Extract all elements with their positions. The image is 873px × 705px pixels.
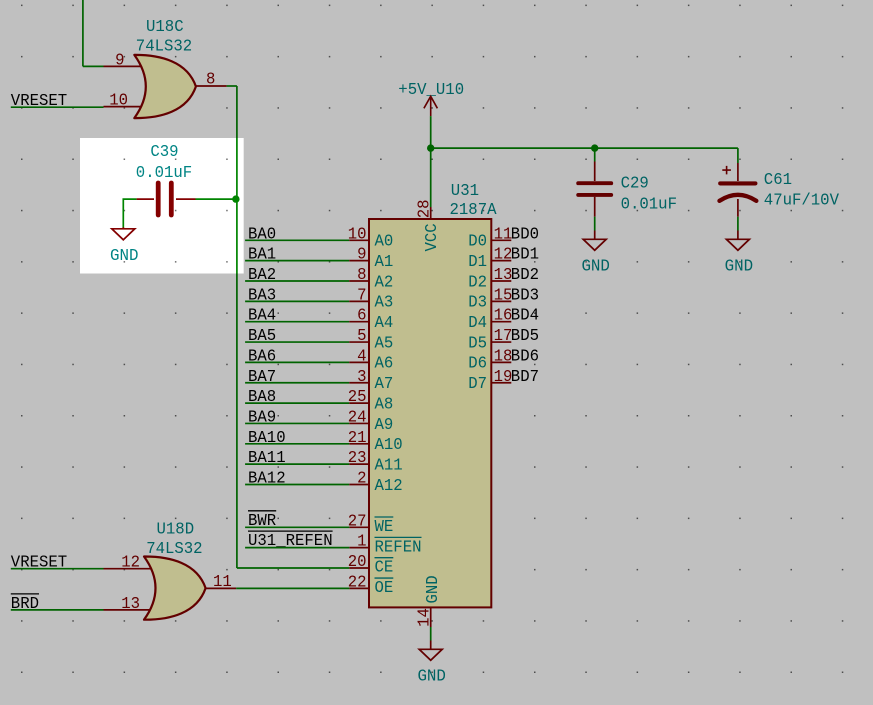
svg-text:10: 10 <box>109 92 128 111</box>
or-gate U18D pin 12 stub <box>104 568 157 570</box>
svg-text:BA2: BA2 <box>248 266 276 285</box>
power +5V arrow symbol <box>424 96 438 108</box>
svg-text:BD7: BD7 <box>511 368 539 387</box>
wire: VRESET to U18D pin 12 <box>11 568 104 570</box>
U31 pin 22 (OE) <box>349 587 369 589</box>
U31 pin 11 (D0) stub and labels <box>491 239 511 241</box>
or-gate U18D pin 13 stub <box>104 609 157 611</box>
svg-text:BA10: BA10 <box>248 429 286 448</box>
svg-text:BD3: BD3 <box>511 286 539 305</box>
svg-text:D7: D7 <box>468 375 487 394</box>
U31 pin 14 (GND) <box>430 607 432 627</box>
wire: C39 left lead corner <box>123 199 136 228</box>
ground below C29 <box>594 231 596 240</box>
wire: GND pin to ground symbol <box>430 627 432 641</box>
svg-text:BRD: BRD <box>11 595 39 614</box>
svg-text:27: 27 <box>348 512 367 531</box>
svg-text:BD5: BD5 <box>511 327 539 346</box>
svg-text:C29: C29 <box>621 174 649 193</box>
svg-text:BA9: BA9 <box>248 408 276 427</box>
svg-text:C39: C39 <box>150 143 178 162</box>
svg-text:D6: D6 <box>468 355 487 374</box>
wire: C61 to ground <box>737 217 739 231</box>
svg-text:D2: D2 <box>468 273 487 292</box>
svg-text:BA12: BA12 <box>248 470 286 489</box>
svg-text:25: 25 <box>348 388 367 407</box>
wire: horizontal into CE pin <box>237 567 349 569</box>
svg-text:A5: A5 <box>375 334 394 353</box>
junction at C29 <box>591 144 598 151</box>
U31 pin 28 (VCC) <box>430 207 432 219</box>
svg-text:BA5: BA5 <box>248 327 276 346</box>
svg-text:BA11: BA11 <box>248 449 286 468</box>
wire: BRD to U18D pin 13 <box>11 609 104 611</box>
svg-text:VRESET: VRESET <box>11 554 67 573</box>
svg-text:GND: GND <box>417 668 446 687</box>
svg-text:11: 11 <box>494 225 513 244</box>
svg-text:A6: A6 <box>375 355 394 374</box>
svg-text:74LS32: 74LS32 <box>146 540 202 559</box>
svg-text:BA7: BA7 <box>248 368 276 387</box>
svg-text:6: 6 <box>357 307 366 326</box>
svg-text:3: 3 <box>357 368 366 387</box>
svg-text:D1: D1 <box>468 253 487 272</box>
svg-text:BA0: BA0 <box>248 225 276 244</box>
svg-text:OE: OE <box>375 579 394 598</box>
svg-text:A11: A11 <box>375 456 403 475</box>
svg-text:12: 12 <box>121 554 140 573</box>
svg-text:28: 28 <box>415 200 434 219</box>
capacitor C61 top plate <box>720 181 755 185</box>
junction C39 to bus <box>232 195 239 202</box>
ground below C39 <box>122 227 124 229</box>
capacitor C39 right pin stub <box>176 198 196 200</box>
svg-text:0.01uF: 0.01uF <box>621 195 677 214</box>
wire: +5V rail to capacitors <box>431 147 738 149</box>
svg-text:4: 4 <box>357 347 366 366</box>
svg-text:15: 15 <box>494 286 513 305</box>
svg-text:BD2: BD2 <box>511 266 539 285</box>
wire: C39 right lead to junction <box>196 198 237 200</box>
svg-text:9: 9 <box>357 246 366 265</box>
svg-text:VRESET: VRESET <box>11 92 67 111</box>
ground below C61 <box>737 231 739 240</box>
svg-text:A0: A0 <box>375 233 394 252</box>
svg-text:16: 16 <box>494 307 513 326</box>
svg-text:BA8: BA8 <box>248 388 276 407</box>
wire: VRESET to U18C pin 10 <box>11 106 104 108</box>
svg-text:0.01uF: 0.01uF <box>136 164 192 183</box>
svg-text:A8: A8 <box>375 395 394 414</box>
svg-text:A4: A4 <box>375 314 394 333</box>
svg-text:D0: D0 <box>468 233 487 252</box>
or-gate U18C body <box>134 55 196 118</box>
svg-text:8: 8 <box>357 266 366 285</box>
svg-text:A1: A1 <box>375 253 394 272</box>
svg-text:47uF/10V: 47uF/10V <box>764 191 839 210</box>
svg-text:CE: CE <box>375 559 394 578</box>
svg-text:A3: A3 <box>375 294 394 313</box>
svg-text:14: 14 <box>415 608 434 627</box>
wire: vertical bus through highlight <box>236 130 238 280</box>
U18C output pin 8 stub <box>196 85 227 87</box>
svg-text:24: 24 <box>348 408 367 427</box>
capacitor C61 bottom pin stub <box>737 199 739 217</box>
svg-text:9: 9 <box>115 51 124 70</box>
svg-text:GND: GND <box>725 258 754 277</box>
junction at +5V rail <box>427 144 434 151</box>
svg-text:2187A: 2187A <box>450 201 498 220</box>
svg-text:BD0: BD0 <box>511 225 539 244</box>
wire: rail down to C29 <box>594 148 596 161</box>
C61 plus sign <box>722 166 731 175</box>
svg-text:13: 13 <box>494 266 513 285</box>
wire: vertical into U18C pin 9 from top edge <box>82 0 84 66</box>
svg-text:U18D: U18D <box>157 521 195 540</box>
svg-text:VCC: VCC <box>423 223 442 251</box>
wire: +5V down to VCC <box>430 116 432 207</box>
wire: horizontal to U18C pin 9 <box>83 65 104 67</box>
svg-text:BD4: BD4 <box>511 307 539 326</box>
U31 pin 13 (D2) stub and labels <box>491 280 511 282</box>
capacitor C39 left pin stub <box>137 198 154 200</box>
U31 pin 19 (D7) stub and labels <box>491 382 511 384</box>
svg-text:1: 1 <box>357 533 366 552</box>
svg-text:22: 22 <box>348 573 367 592</box>
svg-text:U31: U31 <box>451 182 479 201</box>
svg-text:GND: GND <box>581 258 610 277</box>
svg-text:10: 10 <box>348 225 367 244</box>
U31 pin 16 (D4) stub and labels <box>491 321 511 323</box>
capacitor C29 bottom pin stub <box>594 197 596 217</box>
capacitor C29 plates <box>578 181 611 185</box>
svg-text:GND: GND <box>424 575 443 603</box>
capacitor C29 top pin stub <box>594 162 596 182</box>
svg-text:5: 5 <box>357 327 366 346</box>
svg-text:BD1: BD1 <box>511 246 539 265</box>
selection highlight box around C39 <box>80 130 244 280</box>
svg-text:GND: GND <box>110 247 139 266</box>
svg-text:WE: WE <box>375 518 394 537</box>
wire: long vertical bus from pin 8 down to CE <box>236 86 238 568</box>
capacitor C39 plates <box>156 183 161 215</box>
U31 pin 17 (D5) stub and labels <box>491 341 511 343</box>
svg-text:A2: A2 <box>375 273 394 292</box>
U31 pin 27 (WE) <box>349 526 369 528</box>
svg-text:D3: D3 <box>468 294 487 313</box>
ground below U31 <box>430 641 432 650</box>
svg-text:D4: D4 <box>468 314 487 333</box>
svg-text:BA6: BA6 <box>248 347 276 366</box>
svg-text:20: 20 <box>348 553 367 572</box>
svg-text:BA3: BA3 <box>248 286 276 305</box>
capacitor C61 top pin stub <box>737 163 739 181</box>
svg-text:BA1: BA1 <box>248 246 276 265</box>
svg-text:A10: A10 <box>375 436 403 455</box>
U31 pin 1 (REFEN) <box>349 547 369 549</box>
svg-text:U18C: U18C <box>146 18 184 37</box>
svg-text:17: 17 <box>494 327 513 346</box>
U18D output pin 11 stub <box>206 587 237 589</box>
svg-text:BD6: BD6 <box>511 347 539 366</box>
svg-text:23: 23 <box>348 449 367 468</box>
or-gate U18C pin 9 stub <box>104 65 147 67</box>
U31 pin 12 (D1) stub and labels <box>491 260 511 262</box>
svg-text:REFEN: REFEN <box>375 538 422 557</box>
svg-text:2: 2 <box>357 470 366 489</box>
svg-text:BA4: BA4 <box>248 307 276 326</box>
svg-text:12: 12 <box>494 246 513 265</box>
svg-text:74LS32: 74LS32 <box>136 37 192 56</box>
wire: pin 8 to vertical bus <box>227 85 237 87</box>
svg-text:13: 13 <box>121 595 140 614</box>
svg-text:A9: A9 <box>375 416 394 435</box>
svg-text:18: 18 <box>494 347 513 366</box>
svg-text:21: 21 <box>348 429 367 448</box>
U31 pin 15 (D3) stub and labels <box>491 300 511 302</box>
U31 pin 18 (D6) stub and labels <box>491 361 511 363</box>
svg-text:C61: C61 <box>764 171 792 190</box>
wire: pin 11 to OE <box>236 587 349 589</box>
U31 pin 20 (CE) <box>349 567 369 569</box>
svg-text:7: 7 <box>357 286 366 305</box>
wire: rail corner down to C61 <box>737 148 739 163</box>
svg-text:A7: A7 <box>375 375 394 394</box>
wire: C29 to ground <box>594 217 596 231</box>
capacitor C61 curved bottom plate <box>720 195 757 201</box>
svg-text:A12: A12 <box>375 477 403 496</box>
or-gate U18C pin 10 stub <box>104 106 147 108</box>
or-gate U18D body <box>144 556 206 619</box>
IC U31 body <box>369 219 491 607</box>
svg-text:D5: D5 <box>468 334 487 353</box>
svg-text:19: 19 <box>494 368 513 387</box>
